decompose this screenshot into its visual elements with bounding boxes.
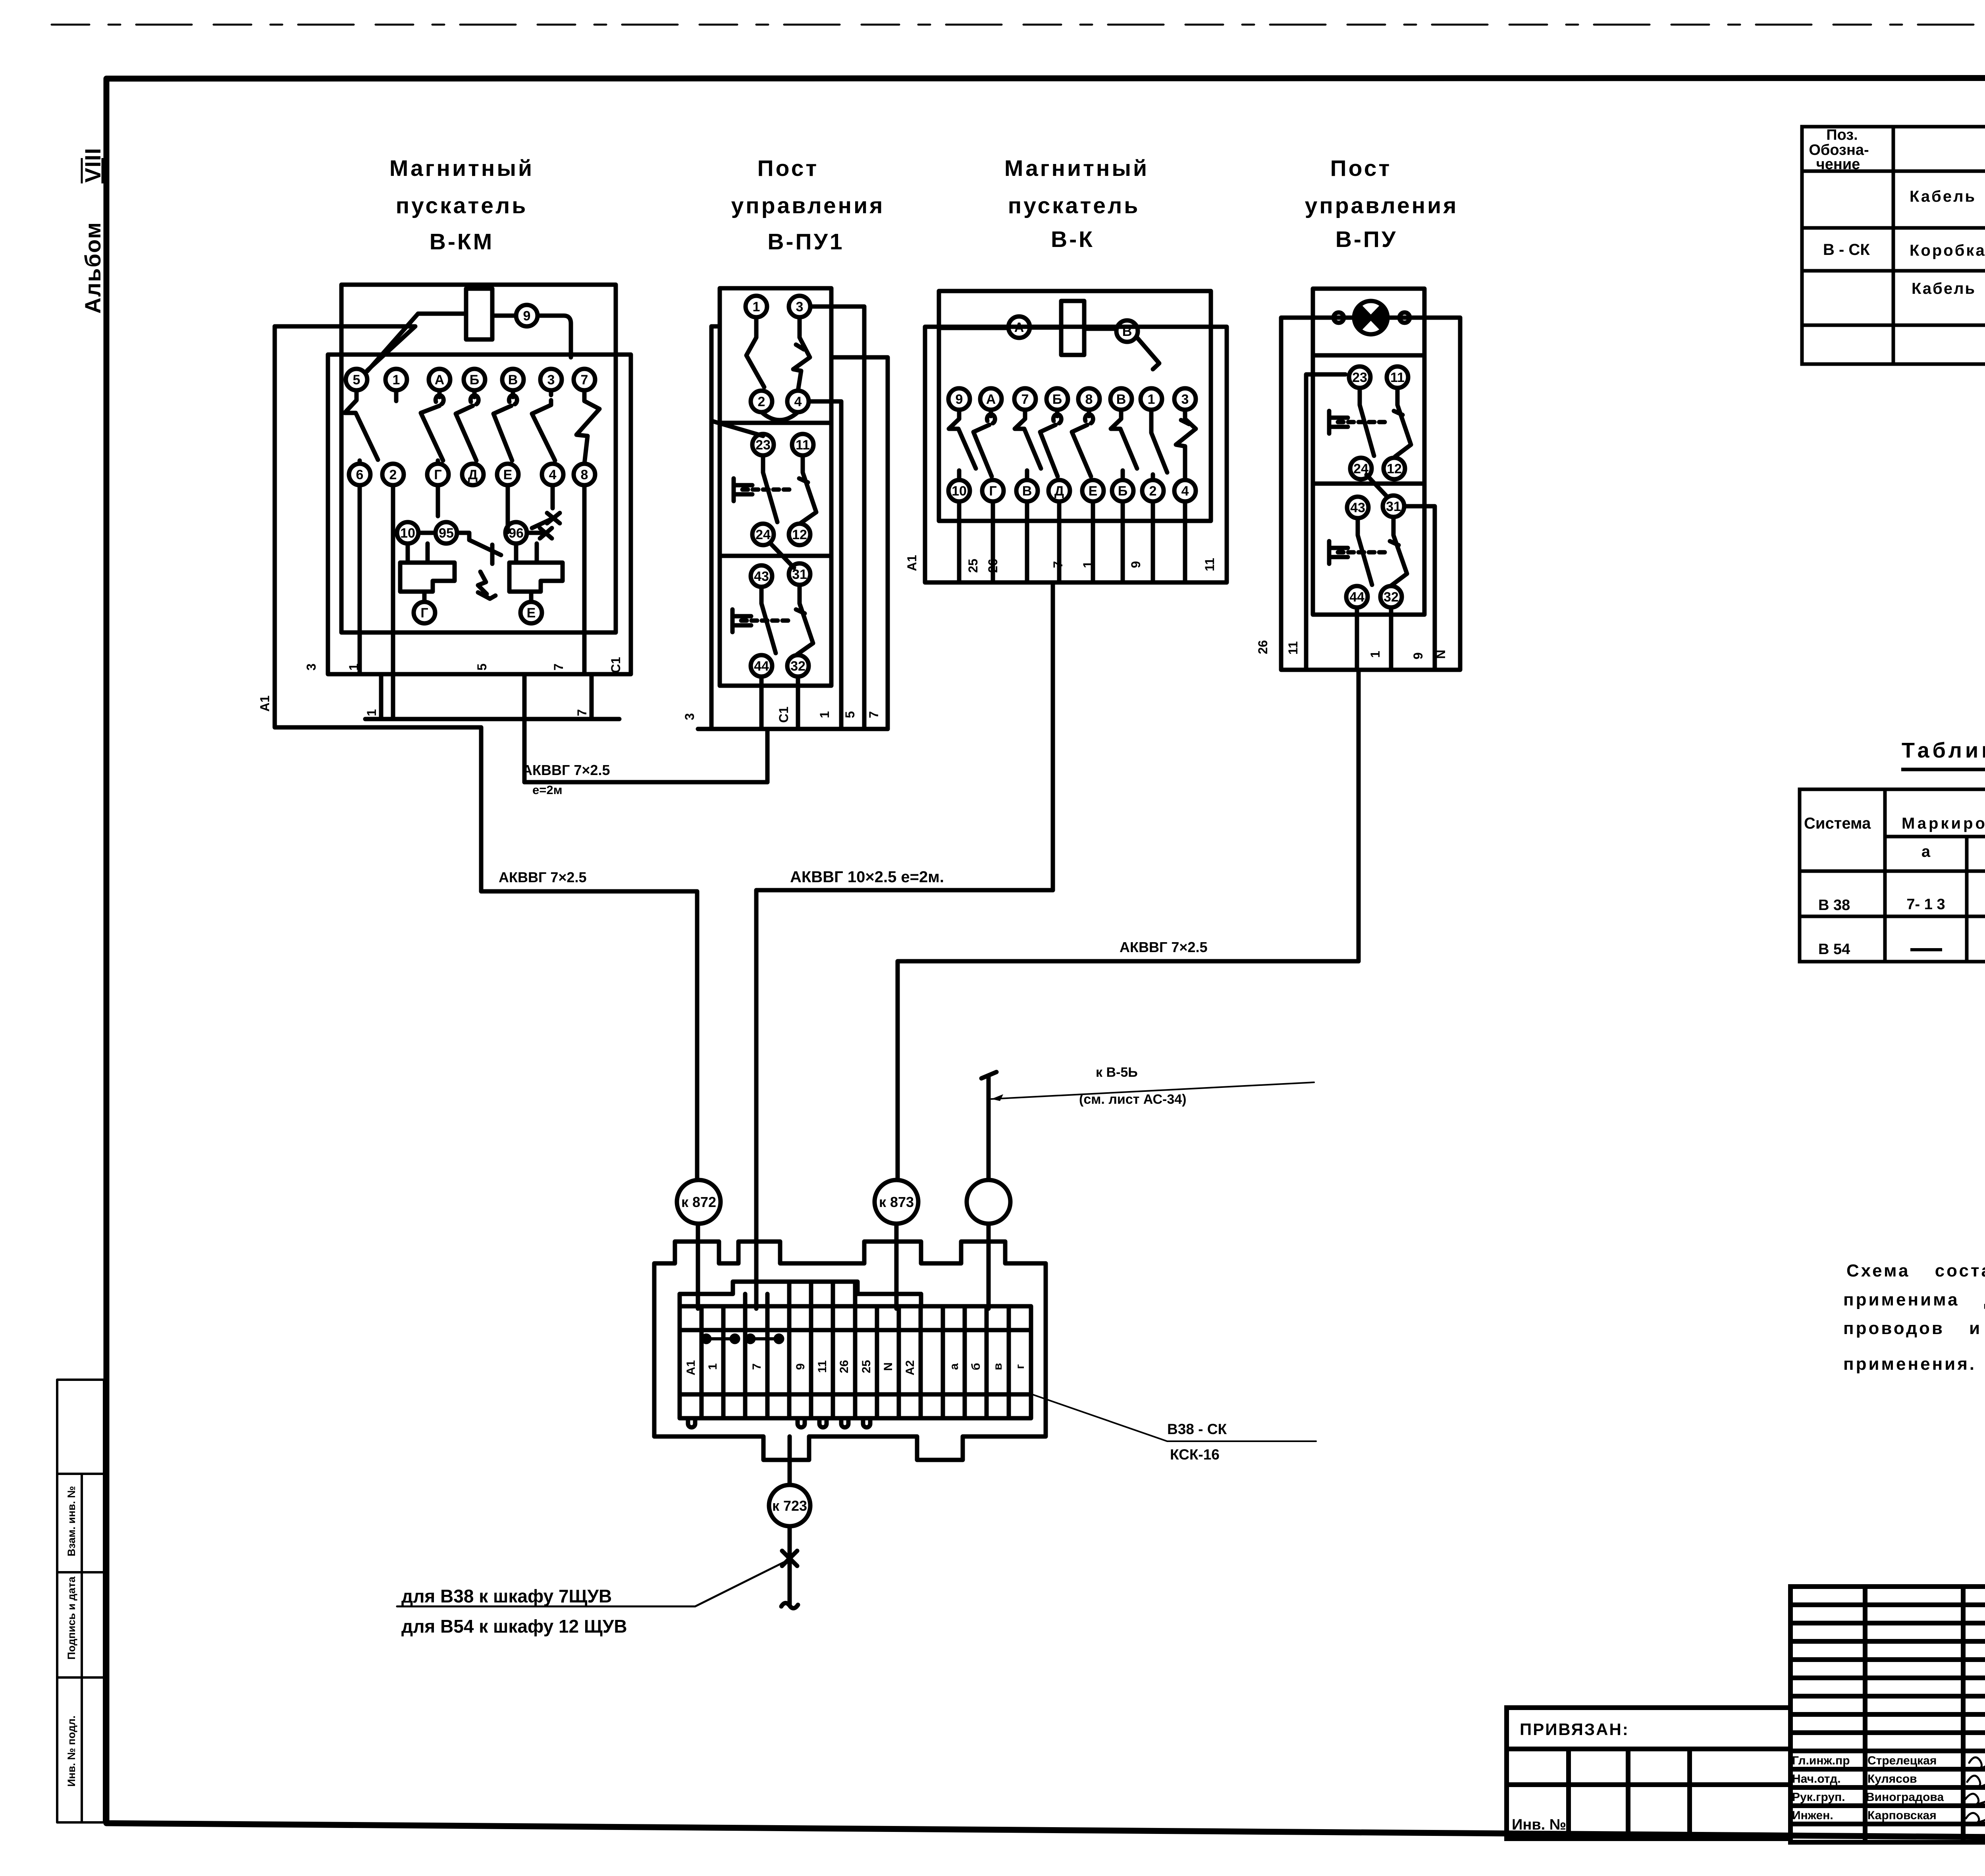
svg-text:Поз.: Поз. xyxy=(1826,127,1858,143)
svg-text:В 54: В 54 xyxy=(1818,941,1850,958)
svg-text:ПРИВЯЗАН:: ПРИВЯЗАН: xyxy=(1520,1720,1629,1739)
svg-text:3: 3 xyxy=(796,299,804,314)
svg-text:Инжен.: Инжен. xyxy=(1792,1809,1833,1822)
svg-text:10: 10 xyxy=(400,526,415,541)
svg-text:А: А xyxy=(435,372,445,388)
svg-text:9: 9 xyxy=(523,308,531,324)
svg-text:44: 44 xyxy=(1349,590,1364,605)
svg-text:В-ПУ: В-ПУ xyxy=(1336,227,1398,252)
svg-text:1: 1 xyxy=(1368,651,1382,658)
svg-text:3: 3 xyxy=(682,713,697,720)
svg-text:Коробка соединительная КСК-1: Коробка соединительная КСК-16 xyxy=(1910,242,1985,259)
svg-text:А2: А2 xyxy=(904,1360,917,1375)
svg-text:7: 7 xyxy=(1021,392,1029,407)
svg-text:(см. лист АС-34): (см. лист АС-34) xyxy=(1079,1092,1187,1107)
svg-text:9: 9 xyxy=(1411,652,1425,659)
svg-text:25: 25 xyxy=(966,559,980,573)
svg-text:1: 1 xyxy=(1081,561,1095,568)
svg-text:г: г xyxy=(1014,1364,1027,1369)
svg-text:чение: чение xyxy=(1816,156,1860,173)
svg-text:Магнитный: Магнитный xyxy=(1004,156,1149,181)
svg-text:7: 7 xyxy=(581,372,588,388)
svg-text:8: 8 xyxy=(1085,392,1093,407)
svg-text:Д: Д xyxy=(1054,484,1064,499)
svg-text:43: 43 xyxy=(754,569,769,584)
svg-text:Система: Система xyxy=(1804,815,1871,832)
svg-text:Б: Б xyxy=(470,372,479,388)
svg-text:Подпись и дата: Подпись и дата xyxy=(66,1576,77,1660)
svg-text:7: 7 xyxy=(575,709,589,716)
svg-text:пускатель: пускатель xyxy=(1008,193,1140,218)
svg-text:4: 4 xyxy=(549,467,557,482)
svg-text:Б: Б xyxy=(1118,484,1127,499)
svg-text:1: 1 xyxy=(706,1363,719,1370)
svg-text:44: 44 xyxy=(754,659,769,674)
svg-text:б: б xyxy=(969,1363,983,1371)
svg-text:Нач.отд.: Нач.отд. xyxy=(1792,1772,1841,1785)
svg-text:25: 25 xyxy=(860,1360,873,1373)
svg-text:1: 1 xyxy=(364,709,379,716)
svg-text:В-КМ: В-КМ xyxy=(430,229,494,255)
svg-text:5: 5 xyxy=(475,663,489,671)
svg-text:24: 24 xyxy=(755,527,771,542)
svg-text:Стрелецкая: Стрелецкая xyxy=(1867,1754,1937,1767)
svg-text:Схема составлена для систем: Схема составлена для системы В38 и xyxy=(1846,1261,1985,1280)
svg-text:3: 3 xyxy=(1181,392,1189,407)
svg-text:3: 3 xyxy=(304,663,318,671)
svg-text:1: 1 xyxy=(817,711,832,718)
svg-text:Е: Е xyxy=(527,605,536,621)
svg-text:Е: Е xyxy=(1089,484,1098,499)
svg-text:Инв. №: Инв. № xyxy=(1512,1816,1566,1833)
svg-text:С1: С1 xyxy=(609,657,623,673)
svg-text:32: 32 xyxy=(790,659,806,674)
svg-text:12: 12 xyxy=(1387,461,1402,476)
svg-text:6: 6 xyxy=(356,467,364,482)
svg-text:С1: С1 xyxy=(777,707,791,723)
svg-text:для В38 к шкафу 7ЩУВ: для В38 к шкафу 7ЩУВ xyxy=(401,1586,612,1606)
svg-text:11: 11 xyxy=(796,438,810,453)
svg-text:5: 5 xyxy=(353,372,360,388)
svg-text:23: 23 xyxy=(1352,370,1367,385)
svg-text:В: В xyxy=(508,372,518,388)
svg-text:Г: Г xyxy=(989,484,996,499)
svg-text:Пост: Пост xyxy=(1330,156,1392,181)
svg-text:7: 7 xyxy=(750,1363,763,1370)
svg-text:5: 5 xyxy=(843,711,857,718)
svg-text:8: 8 xyxy=(581,467,588,482)
svg-text:пускатель: пускатель xyxy=(396,193,528,218)
svg-text:26: 26 xyxy=(1256,640,1270,654)
svg-text:А: А xyxy=(986,392,996,407)
svg-text:для В54 к шкафу 12 ЩУВ: для В54 к шкафу 12 ЩУВ xyxy=(401,1616,627,1637)
svg-text:В: В xyxy=(1122,324,1132,339)
svg-text:1: 1 xyxy=(1148,392,1155,407)
svg-text:10: 10 xyxy=(952,484,967,499)
svg-text:N: N xyxy=(882,1362,895,1371)
svg-text:к 723: к 723 xyxy=(772,1498,807,1514)
svg-text:3: 3 xyxy=(547,372,555,388)
svg-text:23: 23 xyxy=(755,438,771,453)
svg-text:к 872: к 872 xyxy=(681,1194,716,1210)
svg-text:Б: Б xyxy=(1052,392,1062,407)
svg-text:95: 95 xyxy=(439,526,454,541)
svg-text:управления: управления xyxy=(1305,193,1459,218)
svg-text:1: 1 xyxy=(753,299,760,314)
svg-text:В: В xyxy=(1022,484,1032,499)
svg-text:11: 11 xyxy=(1390,370,1405,385)
svg-text:9: 9 xyxy=(1129,561,1143,568)
svg-text:В-К: В-К xyxy=(1051,227,1095,252)
svg-text:7- 1 3: 7- 1 3 xyxy=(1906,896,1945,913)
svg-text:26: 26 xyxy=(986,559,1000,573)
svg-text:А: А xyxy=(1014,320,1024,335)
svg-text:Альбом: Альбом xyxy=(80,222,105,314)
svg-text:применима для В54 с замено: применима для В54 с заменой маркировки xyxy=(1843,1290,1985,1309)
svg-text:АКВВГ 7×2.5: АКВВГ 7×2.5 xyxy=(1120,939,1207,955)
svg-text:Пост: Пост xyxy=(757,156,819,181)
svg-text:43: 43 xyxy=(1350,500,1365,515)
svg-text:11: 11 xyxy=(1203,558,1217,571)
svg-text:а: а xyxy=(1921,843,1931,860)
svg-text:Инв. № подл.: Инв. № подл. xyxy=(66,1716,77,1787)
svg-text:4: 4 xyxy=(1181,484,1189,499)
svg-text:а: а xyxy=(948,1363,961,1370)
svg-text:АКВВГ 10×2.5 е=2м.: АКВВГ 10×2.5 е=2м. xyxy=(790,868,944,886)
svg-text:7: 7 xyxy=(867,711,881,718)
svg-text:В38 - СК: В38 - СК xyxy=(1167,1421,1227,1437)
svg-text:в: в xyxy=(991,1363,1004,1370)
svg-text:2: 2 xyxy=(758,394,765,409)
svg-text:31: 31 xyxy=(1386,499,1401,514)
svg-text:11: 11 xyxy=(1286,641,1300,655)
svg-text:А1: А1 xyxy=(905,555,919,571)
svg-text:применения.: применения. xyxy=(1843,1354,1976,1374)
svg-text:е=2м: е=2м xyxy=(532,783,563,797)
svg-text:к 873: к 873 xyxy=(879,1194,914,1210)
svg-text:2: 2 xyxy=(1149,484,1157,499)
svg-text:4: 4 xyxy=(794,394,802,409)
svg-text:АКВВГ 7×2.5: АКВВГ 7×2.5 xyxy=(522,762,610,778)
svg-text:9: 9 xyxy=(956,392,963,407)
svg-text:96: 96 xyxy=(509,526,524,541)
svg-text:проводов и кабелей согласно: проводов и кабелей согласно таблице xyxy=(1843,1319,1985,1338)
svg-text:Маркировка проводов: Маркировка проводов xyxy=(1902,815,1985,832)
svg-text:Виноградова: Виноградова xyxy=(1866,1791,1944,1804)
svg-text:Г: Г xyxy=(420,605,428,621)
svg-text:9: 9 xyxy=(794,1363,807,1370)
svg-text:26: 26 xyxy=(838,1360,851,1373)
svg-text:Взам. инв. №: Взам. инв. № xyxy=(66,1486,77,1556)
svg-text:32: 32 xyxy=(1384,590,1399,605)
svg-text:7: 7 xyxy=(551,663,566,671)
svg-text:Д: Д xyxy=(468,467,478,482)
svg-text:Таблица применения.: Таблица применения. xyxy=(1902,738,1985,762)
svg-text:24: 24 xyxy=(1353,461,1368,476)
svg-text:Е: Е xyxy=(503,467,513,482)
svg-text:КСК-16: КСК-16 xyxy=(1170,1446,1220,1463)
svg-text:7: 7 xyxy=(1051,561,1065,568)
svg-text:Кулясов: Кулясов xyxy=(1867,1772,1917,1785)
svg-text:АКВВГ 7×2.5: АКВВГ 7×2.5 xyxy=(499,869,586,885)
svg-text:11: 11 xyxy=(816,1360,829,1373)
svg-text:А1: А1 xyxy=(684,1360,698,1375)
svg-text:31: 31 xyxy=(792,567,807,582)
svg-text:Кабель АКВВГ 10×2,5: Кабель АКВВГ 10×2,5 xyxy=(1912,280,1985,297)
svg-text:Магнитный: Магнитный xyxy=(389,156,534,181)
svg-text:Рук.груп.: Рук.груп. xyxy=(1792,1791,1845,1804)
svg-text:А1: А1 xyxy=(258,696,272,712)
svg-text:В: В xyxy=(1116,392,1126,407)
svg-text:Карповская: Карповская xyxy=(1867,1809,1937,1822)
svg-text:В 38: В 38 xyxy=(1818,897,1850,914)
svg-text:2: 2 xyxy=(389,467,397,482)
svg-text:Г: Г xyxy=(434,467,441,482)
svg-text:В - СК: В - СК xyxy=(1823,241,1870,258)
svg-text:1: 1 xyxy=(393,372,400,388)
svg-text:Кабель контрольный АКВВГ 7×2: Кабель контрольный АКВВГ 7×2,5 xyxy=(1910,188,1985,205)
svg-text:Гл.инж.пр: Гл.инж.пр xyxy=(1792,1754,1850,1767)
svg-text:12: 12 xyxy=(792,527,807,542)
svg-text:N: N xyxy=(1434,650,1448,659)
svg-text:В-ПУ1: В-ПУ1 xyxy=(767,229,844,255)
svg-text:1: 1 xyxy=(347,663,361,671)
svg-text:к В-5Ь: к В-5Ь xyxy=(1096,1065,1138,1080)
svg-text:управления: управления xyxy=(731,193,885,218)
